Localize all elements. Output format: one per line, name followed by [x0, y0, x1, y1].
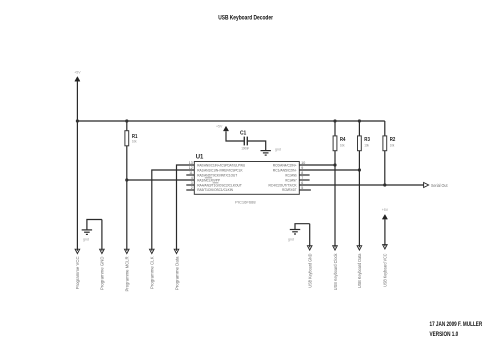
pin stub RA4 — [186, 184, 194, 186]
svg-text:gnd: gnd — [83, 238, 89, 242]
svg-text:17 JAN 2009 F. MULLER: 17 JAN 2009 F. MULLER — [430, 322, 483, 328]
op-amp U1 (PIC16F688 IC) — [194, 155, 299, 205]
svg-text:U1: U1 — [196, 155, 204, 161]
svg-text:5: 5 — [301, 186, 303, 190]
svg-text:10k: 10k — [364, 144, 369, 148]
svg-text:RC4/C2OUT/TX/CK: RC4/C2OUT/TX/CK — [269, 183, 298, 187]
wire USB Keyboard Clock column — [334, 151, 336, 248]
svg-text:Serial Out: Serial Out — [431, 183, 448, 188]
svg-text:RC1/AN5/C2IN-: RC1/AN5/C2IN- — [273, 168, 298, 172]
pin stub RA2 — [186, 174, 194, 176]
wire RC0 row to R4 column — [299, 164, 335, 166]
wire C1 to ground — [247, 141, 265, 150]
pin arrow Programme CLK — [150, 249, 155, 253]
svg-text:R2: R2 — [390, 137, 396, 143]
capacitor C1 — [226, 130, 249, 150]
svg-text:C1: C1 — [240, 130, 246, 136]
wire R2 to serial row — [384, 151, 386, 185]
svg-text:4: 4 — [191, 176, 193, 180]
svg-text:3: 3 — [191, 181, 193, 185]
pin arrow Serial Out — [424, 183, 429, 188]
pin arrow USB Keyboard VCC — [383, 245, 388, 249]
svg-text:8: 8 — [301, 171, 303, 175]
svg-text:RA4/AN3/T1G/OSC2/CLKOUT: RA4/AN3/T1G/OSC2/CLKOUT — [197, 183, 242, 187]
pin labels left — [197, 163, 245, 192]
svg-text:USB Keyboard Data: USB Keyboard Data — [357, 253, 362, 288]
wire Programme VCC column — [76, 82, 78, 251]
svg-text:Programme CLK: Programme CLK — [150, 256, 155, 289]
svg-text:RA3/MCLR/VPP: RA3/MCLR/VPP — [197, 178, 220, 182]
svg-text:10: 10 — [301, 161, 305, 165]
ground (C1) — [261, 148, 281, 156]
pin arrow Programme GND — [100, 249, 105, 253]
resistor R4 — [333, 121, 345, 151]
resistor R1 — [125, 121, 138, 146]
svg-text:+5V: +5V — [382, 208, 389, 212]
svg-text:10k: 10k — [340, 144, 345, 148]
svg-text:RA1/AN1/C1IN-/VREF/ICSPCLK: RA1/AN1/C1IN-/VREF/ICSPCLK — [197, 168, 243, 172]
node junction bus/VCC — [76, 119, 79, 122]
node junction R1/MCLR row — [125, 178, 128, 181]
svg-text:USB Keyboard Decoder: USB Keyboard Decoder — [218, 14, 273, 21]
svg-text:USB Keyboard VCC: USB Keyboard VCC — [383, 254, 388, 287]
supply +5V (USB VCC) — [382, 208, 389, 219]
pin stub RC2 — [299, 174, 309, 176]
pin arrow USB Keyboard Clock — [333, 246, 338, 250]
pin arrow USB Keyboard Data — [357, 246, 362, 250]
pin labels right — [269, 163, 298, 192]
pin numbers right — [301, 161, 305, 190]
wire Programme Data column — [177, 165, 195, 251]
supply +5V (top left) — [74, 71, 81, 82]
svg-text:10k: 10k — [132, 139, 137, 143]
ground (USB) — [288, 224, 310, 242]
wire RC1 row to R3 column — [299, 169, 359, 171]
svg-text:Programme MCLR: Programme MCLR — [125, 257, 130, 292]
svg-text:RA0/AN0/C1IN+/ICSPDAT/ULPWU: RA0/AN0/C1IN+/ICSPDAT/ULPWU — [197, 163, 245, 167]
ground (programmer) — [82, 220, 102, 242]
svg-text:R4: R4 — [340, 137, 346, 143]
wire serial out row — [299, 184, 423, 186]
node junction RC0/R4 — [333, 163, 336, 166]
svg-text:7: 7 — [301, 176, 303, 180]
resistor R3 — [358, 121, 370, 151]
pin stub RC5 — [299, 189, 311, 191]
svg-text:12: 12 — [189, 166, 193, 170]
node junction bus/R3 — [358, 119, 361, 122]
node junction R2/serial — [383, 183, 386, 186]
svg-text:6: 6 — [301, 181, 303, 185]
pin arrow Programme Data — [174, 249, 179, 253]
svg-text:10k: 10k — [390, 144, 395, 148]
svg-text:RC3/AN7: RC3/AN7 — [285, 178, 296, 182]
pin numbers left — [189, 161, 193, 190]
svg-text:RC2/AN6: RC2/AN6 — [285, 173, 296, 177]
svg-text:11: 11 — [189, 171, 193, 175]
node junction bus/R1 — [125, 119, 128, 122]
wire Programme MCLR column — [126, 146, 128, 251]
svg-text:USB Keyboard GND: USB Keyboard GND — [308, 254, 313, 288]
svg-text:gnd: gnd — [288, 238, 294, 242]
svg-text:+5V: +5V — [216, 124, 223, 128]
node junction RC1/R3 — [358, 168, 361, 171]
wire Programme GND column — [101, 220, 103, 251]
pin stub RA5 — [186, 189, 194, 191]
pin arrow Programme MCLR — [125, 249, 130, 253]
pin arrow USB Keyboard GND — [307, 246, 312, 250]
wire USB Keyboard Data column — [358, 151, 360, 248]
wire USB Keyboard VCC column — [384, 219, 386, 246]
svg-text:PIC16F688: PIC16F688 — [235, 200, 255, 204]
wire MCLR row to IC — [127, 179, 195, 181]
svg-text:13: 13 — [189, 161, 193, 165]
svg-text:RC5/RX/DT: RC5/RX/DT — [282, 188, 297, 192]
svg-text:2: 2 — [191, 186, 193, 190]
resistor R2 — [383, 121, 395, 151]
supply +5V (C1) — [216, 124, 229, 131]
wire USB Keyboard GND column — [309, 224, 311, 248]
node junction bus/R4 — [333, 119, 336, 122]
pin stub RC3 — [299, 179, 309, 181]
svg-text:Programme GND: Programme GND — [100, 257, 105, 291]
svg-text:USB Keyboard Clock: USB Keyboard Clock — [333, 253, 338, 290]
svg-text:+5V: +5V — [74, 71, 81, 75]
svg-text:RA5/T1CKI/OSC1/CLKIN: RA5/T1CKI/OSC1/CLKIN — [197, 188, 233, 192]
svg-text:RC0/AN4/C2IN+: RC0/AN4/C2IN+ — [273, 163, 297, 167]
wire Programme CLK column — [152, 170, 195, 251]
svg-text:gnd: gnd — [275, 148, 281, 152]
svg-text:Programme Data: Programme Data — [174, 256, 179, 290]
svg-text:9: 9 — [301, 166, 303, 170]
svg-text:VERSION 1.0: VERSION 1.0 — [430, 332, 459, 338]
svg-text:Programme VCC: Programme VCC — [75, 256, 80, 289]
svg-text:100nF: 100nF — [241, 147, 249, 151]
pin arrow Programme VCC — [75, 249, 80, 253]
svg-text:R3: R3 — [364, 137, 370, 143]
wire power bus — [77, 120, 384, 122]
svg-text:RA2/AN2/T0CKI/INT/C1OUT: RA2/AN2/T0CKI/INT/C1OUT — [197, 173, 238, 177]
